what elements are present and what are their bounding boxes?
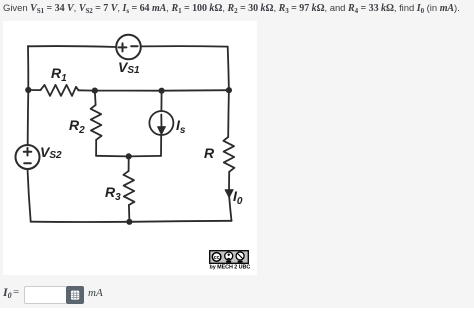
wire node B to node C (95, 90, 162, 92)
wire node C down to Is source (160, 91, 162, 111)
svg-text:R2: R2 (69, 117, 85, 136)
wire left side upper (27, 46, 29, 90)
junction node D (right, row2) (226, 87, 232, 93)
svg-text:by MECH 2 UBC: by MECH 2 UBC (210, 265, 251, 271)
junction node C (Is top) (159, 88, 165, 94)
voltage source VS1 (116, 35, 141, 60)
junction node E (R3 top) (126, 153, 132, 159)
junction node B (R1-R2) (92, 88, 98, 94)
wire left from VS2 to bottom-left corner (28, 169, 31, 222)
junction node A (left, row2) (25, 87, 31, 93)
junction node F (R3 bottom) (126, 219, 132, 225)
svg-text:R3: R3 (105, 184, 121, 203)
svg-text:cc: cc (214, 255, 220, 261)
wire I0 arrow to bottom-right corner (229, 196, 231, 221)
wire right side upper (228, 47, 229, 91)
wire bottom (31, 221, 232, 222)
wire R3 node down to R3 (128, 156, 130, 171)
resistor R2 (91, 105, 102, 140)
wire Is source to mid wire (160, 135, 162, 156)
wire R2 to mid-bottom wire (95, 140, 97, 156)
wire right node down to R (227, 90, 230, 137)
svg-text:Is: Is (176, 117, 186, 136)
wire R to I0 arrow (228, 172, 230, 189)
svg-text:VS1: VS1 (118, 59, 140, 76)
arrow I0 on wire (225, 190, 233, 198)
resistor R3 (123, 171, 134, 205)
wire top from top-left corner to VS1 (28, 45, 116, 48)
wire row2 left node to R1 (28, 89, 40, 91)
answer row (3, 285, 12, 300)
wire mid horizontal R3 node to Is (129, 155, 161, 158)
CC BY-NC badge (210, 251, 249, 264)
resistor R1 (41, 85, 79, 96)
wire node B down to R2 (94, 91, 97, 105)
wire R1 to node B (79, 89, 95, 91)
voltage source VS2 (16, 145, 40, 169)
wire left from node to VS2 (27, 90, 30, 145)
svg-text:VS2: VS2 (40, 144, 62, 161)
wire R3 to bottom node (128, 205, 131, 222)
wire top from VS1 to top-right corner (141, 45, 228, 47)
svg-text:R1: R1 (51, 65, 67, 84)
svg-text:R: R (204, 145, 215, 161)
current source Is (149, 111, 173, 135)
resistor R (223, 137, 234, 172)
wire mid horizontal R2 to R3 node (96, 155, 129, 158)
svg-text:I0: I0 (233, 188, 243, 207)
wire node C to right node (162, 89, 229, 92)
